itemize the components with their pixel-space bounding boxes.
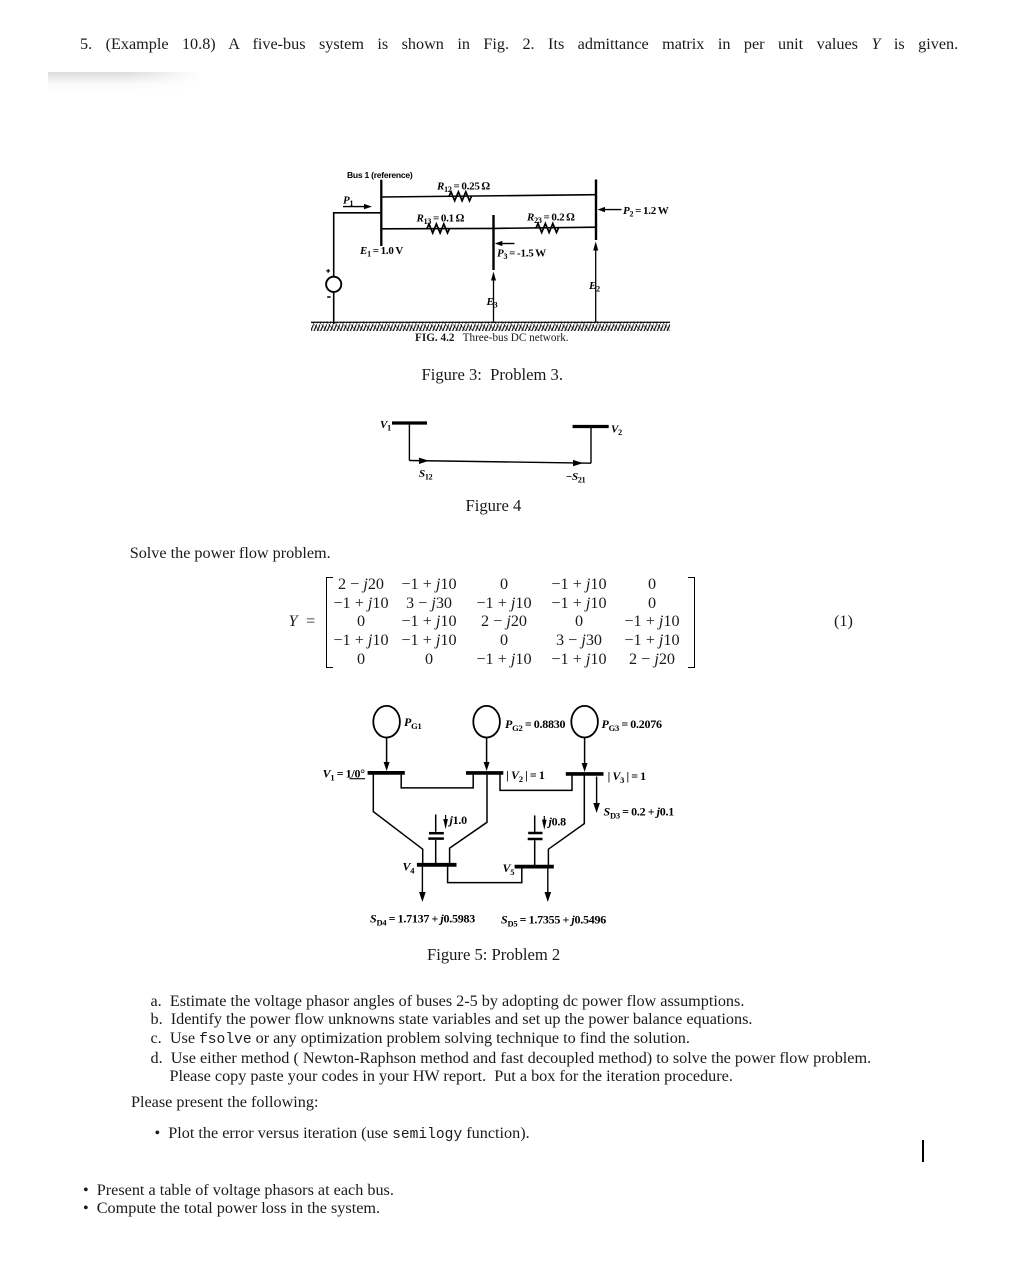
capacitor at bus5 — [528, 815, 543, 865]
svg-text:PG2 = 0.8830: PG2 = 0.8830 — [505, 717, 566, 733]
top problem statement — [80, 35, 958, 54]
svg-text:R23 = 0.2 Ω: R23 = 0.2 Ω — [526, 212, 575, 226]
svg-text:SD4 = 1.7137 + j0.5983: SD4 = 1.7137 + j0.5983 — [370, 912, 475, 928]
caption FIG 4.2 — [415, 332, 569, 344]
wire G2 to bus2 with arrow — [484, 738, 490, 772]
arrow -S21 — [573, 460, 583, 466]
Figure 5 five-bus system (scanned figure) — [315, 695, 685, 935]
matrix entries — [330, 575, 688, 668]
svg-text:E1 = 1.0 V: E1 = 1.0 V — [359, 245, 403, 259]
node V1 bar — [392, 421, 427, 424]
wire source to bus1 — [334, 213, 382, 277]
generator G1 — [373, 706, 400, 738]
voltage source E1 — [326, 277, 341, 292]
FIG 4.2 three-bus DC network (scanned figure) — [300, 160, 680, 352]
svg-text:V1: V1 — [380, 419, 391, 433]
bus 3 bar — [492, 215, 494, 270]
wire bus3-bus2 — [494, 227, 597, 228]
svg-text:PG1: PG1 — [404, 715, 421, 731]
node V2 bar — [573, 425, 609, 428]
svg-text:V5: V5 — [503, 861, 515, 877]
wire from V2 down — [590, 427, 592, 464]
svg-text:S12: S12 — [419, 468, 433, 482]
bus 2 bar — [466, 771, 503, 775]
arrow S12 — [419, 458, 429, 464]
matrix right bracket — [688, 577, 696, 668]
svg-text:j1.0: j1.0 — [448, 813, 468, 827]
bus 2 bar — [595, 180, 597, 241]
text cursor — [922, 1140, 924, 1162]
arrow j1.0 injection — [443, 815, 448, 829]
svg-text:| V2 | = 1: | V2 | = 1 — [506, 768, 545, 784]
equation number (1) — [834, 612, 853, 631]
bus 1 bar — [380, 180, 382, 246]
arrow SD5 load — [545, 868, 552, 902]
wire S12 flow line — [409, 461, 591, 464]
capacitor at bus4 — [428, 815, 444, 864]
arrow P1 — [343, 204, 372, 209]
enumerated items a-d — [151, 992, 872, 1086]
svg-text:−S21: −S21 — [566, 471, 586, 485]
arrow P3 — [495, 241, 515, 246]
resistor R12 — [449, 192, 472, 201]
wire G3 to bus3 with arrow — [582, 738, 588, 773]
label source minus — [327, 296, 330, 298]
arrow SD4 load — [419, 867, 426, 902]
svg-text:E2: E2 — [588, 280, 600, 294]
svg-text:| V3 | = 1: | V3 | = 1 — [608, 769, 647, 785]
arrow P2 — [598, 207, 622, 212]
label V1 angle — [323, 767, 366, 783]
Figure 4 (scanned two-bus figure) — [370, 410, 630, 490]
generator G2 — [473, 706, 500, 738]
wire source to ground — [333, 292, 335, 324]
bus 5 bar — [515, 865, 554, 869]
wire bus2 to bus3 — [500, 775, 572, 791]
svg-text:PG3 = 0.2076: PG3 = 0.2076 — [602, 717, 663, 733]
Figure 3 caption — [422, 365, 564, 385]
scan artifact grey bar — [48, 72, 206, 91]
arrow E2 node voltage — [593, 242, 598, 323]
label source plus — [326, 269, 330, 273]
bus 4 bar — [417, 863, 457, 867]
svg-text:V4: V4 — [403, 860, 416, 876]
arrow j0.8 injection — [542, 816, 547, 830]
wire bus1-bus2 top — [382, 195, 595, 197]
svg-text:R12 = 0.25 Ω: R12 = 0.25 Ω — [436, 181, 491, 195]
arrow E3 node voltage — [491, 272, 496, 323]
bus 3 bar — [566, 772, 604, 776]
svg-text:SD3 = 0.2 + j0.1: SD3 = 0.2 + j0.1 — [604, 805, 675, 821]
ground — [311, 322, 670, 332]
wire bus1-bus3 — [382, 227, 494, 229]
matrix left bracket — [326, 577, 334, 668]
resistor R13 — [427, 224, 450, 233]
wire from V1 down — [408, 423, 410, 461]
generator G3 — [571, 706, 598, 738]
svg-text:V2: V2 — [611, 424, 622, 438]
svg-text:P2 = 1.2 W: P2 = 1.2 W — [623, 205, 669, 219]
solve sentence — [130, 544, 331, 563]
wire bus4 to bus5 — [448, 866, 522, 882]
resistor R23 — [536, 224, 559, 233]
svg-text:Bus 1 (reference): Bus 1 (reference) — [347, 170, 413, 180]
svg-text:j0.8: j0.8 — [547, 815, 567, 829]
svg-text:P3 = -1.5 W: P3 = -1.5 W — [497, 248, 546, 262]
svg-text:V1 = 1/0°: V1 = 1/0° — [323, 767, 366, 783]
Y matrix equation — [289, 612, 316, 631]
svg-text:E3: E3 — [486, 296, 498, 310]
wire bus1 to bus2 — [401, 774, 473, 788]
svg-text:SD5 = 1.7355 + j0.5496: SD5 = 1.7355 + j0.5496 — [501, 913, 606, 929]
wire bus1 to bus4 — [373, 774, 422, 863]
svg-text:R13 = 0.1 Ω: R13 = 0.1 Ω — [416, 213, 465, 227]
wire bus3 to bus5 — [548, 776, 584, 866]
wire bus2 to bus4 — [450, 775, 487, 864]
Figure 5 caption — [427, 945, 560, 965]
arrow SD3 load — [593, 777, 600, 814]
Figure 4 caption — [466, 496, 522, 516]
bus 1 bar — [368, 771, 405, 775]
wire G1 to bus1 with arrow — [384, 738, 390, 772]
